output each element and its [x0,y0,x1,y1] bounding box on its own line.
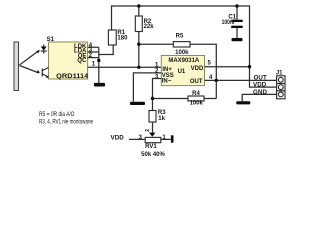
svg-text:QC: QC [77,58,87,64]
svg-text:1k: 1k [158,116,165,122]
svg-text:VDD: VDD [191,66,204,72]
svg-text:U1: U1 [178,69,186,75]
svg-text:50k 40%: 50k 40% [141,152,165,158]
svg-text:QRD1114: QRD1114 [56,74,89,80]
svg-text:22k: 22k [144,24,155,30]
svg-text:R5: R5 [176,34,184,40]
svg-text:RV1: RV1 [145,144,157,150]
svg-text:OUT: OUT [190,79,203,85]
svg-text:VDD: VDD [253,82,267,89]
svg-text:R4: R4 [192,91,200,97]
svg-text:IN−: IN− [162,78,172,84]
svg-text:100nF: 100nF [222,20,237,26]
svg-text:S1: S1 [47,37,55,43]
svg-text:R3, 4, RV1 nie montowane: R3, 4, RV1 nie montowane [39,119,93,126]
svg-text:100k: 100k [175,50,189,56]
svg-text:180: 180 [117,36,128,42]
svg-text:J1: J1 [276,71,283,77]
svg-text:100k: 100k [190,100,204,106]
svg-text:GND: GND [253,89,267,96]
svg-text:MAX9031A: MAX9031A [168,57,199,64]
svg-text:VDD: VDD [111,134,125,141]
svg-text:2: 2 [145,129,151,132]
svg-text:OUT: OUT [254,74,267,81]
svg-text:R5 = 0R dla A/O: R5 = 0R dla A/O [39,111,75,118]
